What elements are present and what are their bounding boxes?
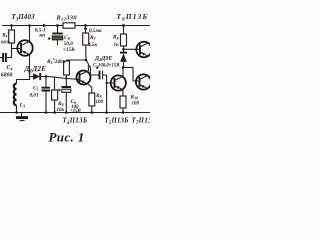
svg-text:100: 100 [132, 101, 140, 106]
svg-text:1к: 1к [114, 42, 120, 48]
svg-text:Рис. 1: Рис. 1 [49, 130, 85, 145]
svg-text:R5*240к: R5*240к [46, 57, 66, 65]
svg-text:С7100,0×15В: С7100,0×15В [93, 64, 120, 69]
svg-text:4,5к: 4,5к [87, 42, 97, 48]
svg-text:0,5ма: 0,5ма [89, 28, 102, 34]
svg-text:×15В: ×15В [70, 109, 82, 114]
svg-text:Д2Д9Е: Д2Д9Е [94, 56, 112, 62]
svg-text:100: 100 [96, 100, 104, 105]
svg-text:R12330: R12330 [56, 14, 78, 21]
svg-text:10к: 10к [57, 108, 65, 113]
svg-text:ма: ма [38, 33, 46, 39]
svg-text:680к: 680к [1, 40, 11, 45]
svg-text:6800: 6800 [1, 72, 13, 78]
svg-text:С4: С4 [7, 65, 13, 71]
svg-text:L3: L3 [19, 102, 25, 108]
svg-text:×15В: ×15В [63, 47, 75, 53]
svg-text:0,01: 0,01 [30, 93, 39, 99]
